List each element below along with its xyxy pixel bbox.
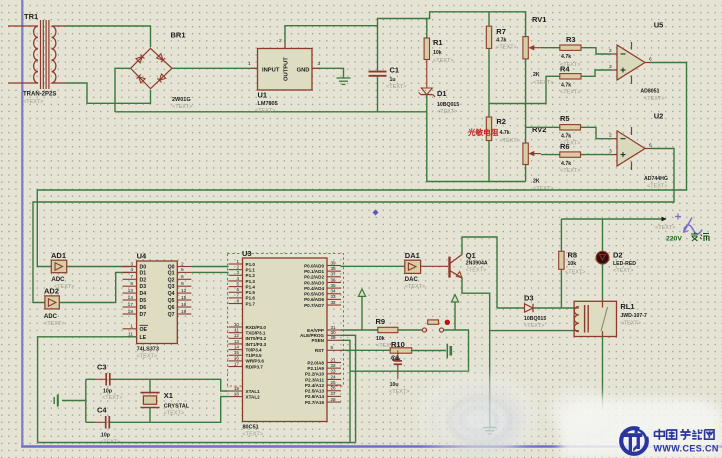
wire: bottom rail y=442.5 (LE to ALE) [38,442,356,444]
DAC DA1 [405,251,425,290]
ground: R10 (bar style) [446,344,448,359]
wire: U3 EA to R9 with VCC tap [341,329,378,331]
resistor R5 [526,114,581,147]
diode D3 [497,294,574,330]
wire: XTAL2 loop bottom rail [109,397,228,423]
AC source symbol (violet) [675,214,702,235]
op-amp U2 [609,112,668,190]
capacitor C3 (series) [86,363,123,402]
resistor R7 [486,12,516,104]
LED D2 [596,251,636,275]
wire: U3 RST to R10 [341,349,390,351]
op-amp U5 [609,21,664,103]
resistor R9 [376,317,398,349]
push button [422,320,450,333]
potentiometer RV1 [523,15,554,104]
capacitor C2 [389,351,409,396]
wire: R9 to push button [398,329,422,331]
wire: divider node rail y=103.5 [489,76,546,103]
wire: 220V node rail [561,218,666,220]
wire: transformer secondary bottom to bridge bottom corner [66,83,151,103]
resistor R3 [541,35,581,68]
resistor R2 (photoresistor) [486,104,520,182]
wire: U3 PSEN down to bottom rail [341,340,350,442]
wire: Q1 collector loop to D3 [462,237,497,308]
MCU U3 80C51 [228,249,344,438]
wire: U4 LE down-left to bottom rail [38,337,137,443]
resistor R6 [541,142,581,174]
wire: U4 Q0 to U3 P1.0 [191,266,228,268]
ground: emitter/relay return [483,428,497,434]
bridge rectifier BR1 [131,31,193,111]
wire: relay switch to lamp (bottom) [602,337,604,410]
wire: R10 to ground bars [412,350,446,352]
wire: R6 to U2 pin 3 [581,154,612,156]
wire: D2 to relay switch [602,264,604,302]
wire: DA1 output to Q1 base [421,265,448,267]
wire: transformer secondary top to bridge top corner [66,26,151,47]
wire: crystal left vertical [85,379,87,422]
wire: relay coil return to ground [489,331,491,428]
wire: button to pull-down loop [350,330,469,371]
wire: bridge right corner to U1 input [172,67,251,69]
ground: U1 GND pin [320,68,344,78]
wire: D1 bottom to R2/RV2 bottom rail [427,112,526,182]
selection highlight (red dashed) around U3 [228,254,344,387]
resistor R4 [560,65,581,96]
sheet border (blue) bottom edge [21,445,722,447]
regulator U1 LM7805 [248,38,321,114]
watermark text CJK (China Energy Saving Net) [655,429,715,440]
potentiometer RV2 [523,104,554,193]
relay RL1 [574,301,647,336]
wire: 220V node down to D2 [602,219,604,252]
wire: R3 to U5 pin 2 [581,48,612,54]
wire: U2 output loop to rail y=202 [33,149,674,303]
power +V arrow (button node) [451,295,458,302]
wire: U3 P0.0 to DA1 input [341,265,405,267]
wire: R4 to U5 pin 3 [581,70,612,76]
wire: ground rail (y=112) from bridge to D1 column [115,111,427,113]
svg-text:WWW.CES.CN: WWW.CES.CN [654,443,719,453]
wire: R5 to U2 pin 2 [581,127,612,138]
power +V arrow (EA node) [358,289,365,296]
wire: U5 output loop to rail y=190 [37,63,686,267]
wire: R4 left to divider node [546,75,560,77]
capacitor C1 [369,26,407,112]
wire: U1 output +V rail (stair) to RV1 top [285,12,526,43]
resistor R1 [424,19,453,89]
watermark logo (CES ring) [621,427,649,454]
ADC AD1 [51,251,74,290]
ground: crystal circuit [62,400,86,402]
wire: XTAL1 loop top rail [110,379,229,391]
transistor Q1 [450,251,488,278]
wire: Q1 emitter to relay coil return [462,278,574,331]
wire: U3 ALE down to bottom rail [341,335,356,442]
node marker (diamond) [373,210,379,216]
latch U4 74LS373 [123,252,192,360]
capacitor C4 (series) [86,406,121,446]
resistor R8 [559,219,586,308]
transformer TR1 [8,12,66,105]
wire: AD2 output to U4 D1 [59,272,129,302]
zener diode D1 [419,88,460,115]
sheet border (blue) left edge [21,0,23,447]
ADC AD2 [44,287,64,328]
resistor R10 [390,340,412,363]
wire: AD1 output to U4 D0 [67,266,129,268]
wire: bridge left corner to ground rail [115,68,131,112]
crystal X1 [140,379,189,422]
wire: U4 Q1 to U3 P1.1 [191,271,228,273]
